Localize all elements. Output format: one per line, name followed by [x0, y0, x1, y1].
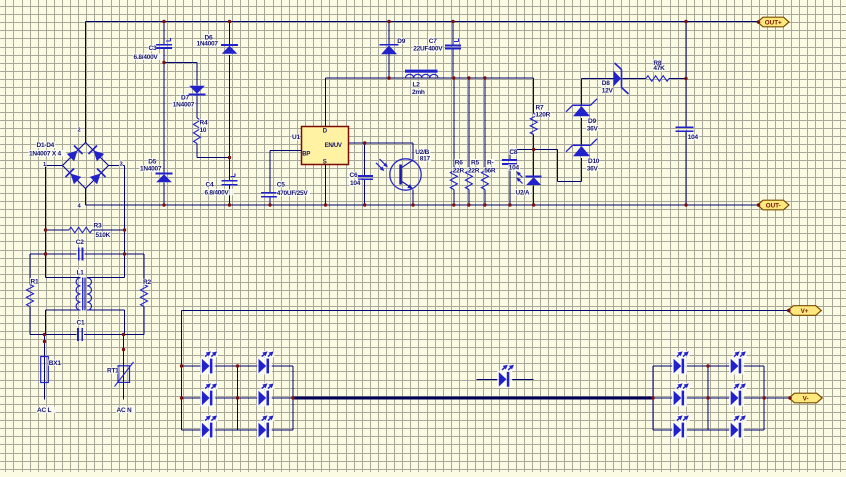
- junction at 164,21.5: [162, 20, 165, 23]
- label C6: [349, 172, 357, 178]
- label C3: [148, 45, 156, 51]
- svg-text:104: 104: [350, 180, 361, 187]
- svg-text:R3: R3: [94, 223, 102, 230]
- wire: bridge node4 to bottom rail: [85, 189, 87, 206]
- IC U1: [302, 127, 349, 165]
- junction at 237.5,366: [236, 364, 239, 367]
- label R6: [454, 159, 462, 165]
- junction at 686,205: [684, 203, 687, 206]
- label D9 right: [587, 118, 595, 124]
- svg-text:C6: C6: [350, 172, 358, 179]
- svg-text:C1: C1: [77, 320, 85, 327]
- wire: D pin column and L2 row: [326, 78, 534, 127]
- svg-text:22UF400V: 22UF400V: [413, 46, 443, 53]
- wire: R3 row: [46, 229, 125, 231]
- value 36V D10: [586, 165, 598, 171]
- svg-text:10: 10: [200, 127, 207, 134]
- value 10: [199, 127, 207, 133]
- wire: D8 anode to D9/D10 zener chain: [582, 79, 614, 159]
- svg-text:470UF/25V: 470UF/25V: [277, 190, 309, 197]
- wire: L1 bottom row: [46, 310, 125, 334]
- wire: thermistor column to AC N: [123, 335, 125, 400]
- port V+: [788, 306, 822, 316]
- svg-text:47K: 47K: [653, 65, 665, 72]
- junction at 484.9,78: [483, 76, 486, 79]
- port OUT+: [758, 17, 790, 27]
- junction at 123.5,349.5: [122, 348, 125, 351]
- wire: C3 to D7 branch: [164, 63, 230, 158]
- capacitor C8: [502, 160, 517, 164]
- bridge rectifier D1-D4: [63, 143, 109, 189]
- value 1N4007 D7: [172, 101, 195, 107]
- capacitor C3: [156, 45, 172, 48]
- junction at 270,205: [268, 203, 271, 206]
- resistor R4: [194, 118, 201, 144]
- svg-text:R5: R5: [471, 159, 479, 166]
- LED D18 right array r1c2: [729, 358, 744, 375]
- LED floating middle: [497, 371, 512, 388]
- label R8: [653, 59, 661, 65]
- svg-text:OUT+: OUT+: [765, 19, 782, 26]
- junction at 653,398: [651, 396, 654, 399]
- wire: C1 row: [30, 334, 144, 336]
- value 104 output: [687, 134, 699, 140]
- svg-text:1N4007: 1N4007: [140, 166, 162, 173]
- LED D22 right array r3c2: [729, 422, 744, 439]
- junction at 533.7,149.5: [532, 148, 535, 151]
- value 510K: [95, 232, 111, 238]
- wire: bridge AC node 3 to filter: [109, 166, 125, 231]
- wire: R7 column: [533, 78, 535, 150]
- value 47K: [653, 65, 665, 71]
- svg-text:C7: C7: [429, 38, 437, 45]
- svg-text:C4: C4: [206, 181, 214, 188]
- svg-text:104: 104: [688, 134, 699, 141]
- svg-text:EN/UV: EN/UV: [325, 143, 342, 149]
- LED D11 left array r1c1: [200, 358, 215, 375]
- svg-text:D9: D9: [588, 118, 596, 125]
- junction at 229.5,157.5: [228, 156, 231, 159]
- label D5: [148, 158, 156, 164]
- svg-text:R6: R6: [455, 159, 463, 166]
- junction at 325.5,205: [324, 203, 327, 206]
- junction at 44.5,341.5: [43, 340, 46, 343]
- label R3: [93, 222, 101, 228]
- wire: V- port lead: [764, 397, 789, 399]
- label R4: [199, 119, 207, 125]
- label C4: [205, 181, 213, 187]
- svg-text:C2: C2: [76, 239, 84, 246]
- wire: V+ rail: [182, 311, 788, 367]
- junction at 389,21.5: [387, 20, 390, 23]
- LED D16 left array r3c2: [257, 422, 272, 439]
- svg-text:U1: U1: [292, 134, 300, 141]
- capacitor C6: [358, 176, 373, 179]
- zener D9 right: [573, 104, 591, 106]
- LED D19 right array r2c1: [672, 390, 687, 407]
- label D10: [587, 158, 599, 164]
- label R1: [30, 278, 38, 284]
- wire: left LED array row 1: [182, 365, 294, 367]
- label R5: [470, 159, 478, 165]
- label L2: [412, 81, 420, 87]
- label D1-D4: [36, 142, 55, 148]
- svg-text:36V: 36V: [587, 165, 599, 172]
- svg-text:D8: D8: [602, 80, 610, 87]
- wire: thick LED bus: [293, 397, 653, 400]
- pin 3: [119, 161, 123, 167]
- junction at 364.7,143: [363, 141, 366, 144]
- svg-text:510K: 510K: [96, 232, 111, 239]
- capacitor C1: [78, 328, 82, 341]
- svg-text:D1-D4: D1-D4: [37, 142, 55, 149]
- wire: opto emitter to bottom rail: [412, 190, 414, 206]
- fuse BX1: [41, 357, 49, 383]
- label BX1: [48, 359, 60, 365]
- wire: right LED array row 2: [653, 397, 764, 399]
- svg-text:R4: R4: [200, 120, 208, 127]
- junction at 364.7,205: [363, 203, 366, 206]
- label C2: [75, 238, 83, 244]
- pin 1: [42, 161, 46, 167]
- wire: 104 cap column: [685, 22, 687, 206]
- label L1: [76, 269, 84, 275]
- label R7: [535, 104, 543, 110]
- label C7: [428, 37, 436, 43]
- value 120R: [535, 111, 551, 117]
- svg-text:22R: 22R: [468, 167, 480, 174]
- svg-text:D7: D7: [181, 95, 189, 102]
- svg-text:D10: D10: [588, 158, 600, 165]
- junction at 293,398: [291, 396, 294, 399]
- diode D7: [189, 94, 206, 96]
- label R2: [142, 279, 150, 285]
- port V-: [789, 393, 822, 403]
- svg-text:R1: R1: [31, 278, 39, 285]
- wire: R5 column: [468, 78, 470, 205]
- wire: R2 branch: [143, 254, 145, 335]
- label C5: [276, 181, 284, 187]
- wire: right LED array row 1: [653, 365, 764, 367]
- LED D12 left array r1c2: [257, 358, 272, 375]
- svg-text:817: 817: [420, 156, 431, 163]
- junction at 123.5,334.5: [122, 333, 125, 336]
- value 104 C6: [349, 180, 361, 186]
- wire: left LED array verticals: [182, 366, 294, 430]
- value 2mh: [411, 89, 423, 95]
- terminal AC N: [116, 407, 135, 413]
- zener D8: [615, 63, 629, 94]
- wire: D6 / C4 column: [229, 22, 231, 206]
- optocoupler transistor U2B: [390, 159, 421, 190]
- value 1N4007 D5: [139, 165, 162, 171]
- junction at 533.7,205: [532, 203, 535, 206]
- svg-text:120R: 120R: [536, 111, 551, 118]
- svg-text:1N4007: 1N4007: [173, 102, 195, 109]
- junction at 484.9,205: [483, 203, 486, 206]
- port OUT-: [758, 200, 790, 210]
- opto arrows from U2A: [517, 172, 522, 177]
- resistor R5: [465, 167, 472, 190]
- wire: left LED array row 2: [182, 397, 294, 399]
- capacitor C4: [222, 181, 238, 185]
- svg-text:BX1: BX1: [49, 360, 62, 367]
- wire: D9 column top-middle: [388, 22, 390, 79]
- wire: right LED array row 3: [653, 429, 764, 431]
- resistor R-: [481, 167, 488, 190]
- svg-text:S: S: [323, 160, 327, 166]
- inductor L2: [405, 70, 438, 73]
- inductor L1 common-mode choke: [76, 278, 80, 310]
- LED D20 right array r2c2: [729, 390, 744, 407]
- wire: C8 row to D10 anode: [510, 150, 582, 182]
- junction at 229.5,21.5: [228, 20, 231, 23]
- value 1N4007 X 4: [28, 150, 65, 156]
- svg-text:C8: C8: [509, 149, 517, 156]
- label U2/B: [415, 149, 431, 155]
- wire: bridge + node vertical: [85, 22, 87, 143]
- wire: L1 top row: [46, 254, 125, 278]
- wire: R6 column: [453, 78, 455, 205]
- svg-text:AC N: AC N: [117, 407, 132, 414]
- junction at 686,78.5: [684, 77, 687, 80]
- svg-text:L1: L1: [77, 270, 85, 277]
- label RT1: [106, 367, 118, 373]
- svg-text:22R: 22R: [453, 167, 465, 174]
- junction at 708,398: [706, 396, 709, 399]
- svg-text:U2/A: U2/A: [516, 189, 530, 196]
- wire: left LED array row 3: [182, 429, 294, 431]
- svg-text:BP: BP: [302, 151, 310, 157]
- svg-text:12V: 12V: [602, 87, 614, 94]
- pin 2: [77, 127, 81, 133]
- resistor R7: [530, 114, 537, 135]
- svg-text:AC L: AC L: [37, 407, 51, 414]
- junction at 389,78: [387, 76, 390, 79]
- wire: C3 / D5 column: [163, 22, 165, 206]
- wire: right LED array verticals: [653, 366, 764, 430]
- value 22UF400V: [413, 45, 443, 51]
- thermistor RT1: [118, 366, 130, 383]
- value 6.8/400V C3: [133, 53, 163, 59]
- opto arrows into U2B: [380, 159, 387, 166]
- junction at 45.5,230: [44, 228, 47, 231]
- label D6: [204, 34, 212, 40]
- junction at 764.2,398: [763, 396, 766, 399]
- pin 4: [77, 203, 81, 209]
- junction at 686,21.5: [684, 20, 687, 23]
- junction at 453.8,205: [452, 203, 455, 206]
- label U2/A: [515, 189, 531, 195]
- value 6.8/400V C4: [204, 189, 234, 195]
- svg-text:2: 2: [78, 128, 81, 134]
- wire: floating LED stubs: [477, 378, 534, 380]
- wire: C8 column: [509, 150, 511, 206]
- label D7: [180, 94, 188, 100]
- svg-text:R2: R2: [143, 279, 151, 286]
- resistor R8: [646, 76, 669, 82]
- LED D13 left array r2c1: [200, 390, 215, 407]
- junction at 124.5,254: [123, 252, 126, 255]
- label D9 top: [397, 37, 405, 43]
- LED D17 right array r1c1: [672, 358, 687, 375]
- value 22R R5: [467, 167, 479, 173]
- svg-text:RT1: RT1: [107, 368, 119, 375]
- value 22R R6: [452, 167, 464, 173]
- junction at 453,21.5: [451, 20, 454, 23]
- wire: C6 column: [364, 143, 366, 205]
- resistor R2: [141, 285, 148, 307]
- wire: R1 branch: [29, 254, 31, 335]
- junction at 453.8,78: [452, 76, 455, 79]
- LED D21 right array r3c1: [672, 422, 687, 439]
- capacitor 104 output: [676, 127, 694, 131]
- label U1: [291, 134, 299, 140]
- label R-: [486, 159, 494, 165]
- diode D6: [221, 44, 238, 46]
- capacitor C5: [261, 193, 277, 197]
- svg-text:1N4007 X 4: 1N4007 X 4: [29, 150, 61, 157]
- svg-text:6.8/400V: 6.8/400V: [205, 189, 230, 196]
- svg-text:V+: V+: [801, 308, 809, 315]
- wire: top DC+ rail: [86, 21, 758, 23]
- optocoupler LED U2A: [526, 176, 542, 178]
- wire: bridge AC node 1 to filter: [46, 166, 63, 231]
- wire: C7 column: [452, 22, 454, 79]
- wire: bottom DC- rail: [86, 204, 758, 206]
- zener D9 top-middle: [380, 44, 399, 46]
- svg-text:L2: L2: [413, 81, 421, 88]
- svg-text:56R: 56R: [484, 167, 496, 174]
- junction at 45.5,254: [44, 252, 47, 255]
- resistor R1: [27, 285, 34, 307]
- wire: S pin to bottom rail: [325, 165, 327, 206]
- junction at 164,62.5: [162, 61, 165, 64]
- svg-text:C3: C3: [149, 45, 157, 52]
- wire: fuse column to AC L: [44, 335, 46, 400]
- junction at 44.5,334.5: [43, 333, 46, 336]
- resistor R3: [69, 227, 92, 233]
- junction at 468.9,205: [467, 203, 470, 206]
- junction at 708,366: [706, 364, 709, 367]
- LED D14 left array r2c2: [257, 390, 272, 407]
- wire: BP pin to C5: [270, 151, 302, 206]
- wire: C2 row: [30, 230, 144, 254]
- junction at 124.5,230: [123, 228, 126, 231]
- wire: R8 row to 104 column: [622, 78, 686, 80]
- wire: EN/UV row to opto collector: [349, 143, 414, 160]
- svg-text:2mh: 2mh: [412, 89, 425, 96]
- junction at 229.5,205: [228, 203, 231, 206]
- label C8: [509, 148, 517, 154]
- svg-text:D9: D9: [397, 38, 405, 45]
- junction at 164,205: [162, 203, 165, 206]
- capacitor C2: [79, 248, 83, 261]
- value 104 C8: [508, 164, 520, 170]
- junction at 181.5,366: [180, 364, 183, 367]
- zener D10: [573, 144, 591, 146]
- junction at 181.5,398: [180, 396, 183, 399]
- value 470UF/25V: [276, 190, 310, 196]
- svg-text:36V: 36V: [587, 125, 599, 132]
- value 56R: [484, 167, 496, 173]
- value 1N4007 D6: [196, 40, 219, 46]
- label C1: [76, 319, 84, 325]
- svg-text:D5: D5: [148, 159, 156, 166]
- junction at 413,205: [411, 203, 414, 206]
- LED D15 left array r3c1: [200, 422, 215, 439]
- wire: U2A column: [533, 150, 535, 206]
- diode D5: [156, 173, 173, 175]
- svg-text:OUT-: OUT-: [766, 202, 781, 209]
- svg-text:104: 104: [509, 165, 520, 172]
- junction at 468.9,78: [467, 76, 470, 79]
- svg-text:1N4007: 1N4007: [197, 41, 219, 48]
- value 817: [419, 155, 431, 161]
- svg-text:6.8/400V: 6.8/400V: [134, 54, 159, 61]
- junction at 510,205: [508, 203, 511, 206]
- resistor R6: [450, 167, 457, 190]
- terminal AC L: [36, 407, 55, 413]
- value 36V D9: [586, 125, 598, 131]
- svg-text:V-: V-: [803, 395, 809, 402]
- svg-text:R-: R-: [487, 159, 493, 166]
- label D8: [601, 80, 609, 86]
- capacitor C7: [445, 45, 461, 48]
- svg-text:C5: C5: [277, 181, 285, 188]
- value 12V: [601, 87, 613, 93]
- wire: R- column: [484, 78, 486, 205]
- junction at 237.5,398: [236, 396, 239, 399]
